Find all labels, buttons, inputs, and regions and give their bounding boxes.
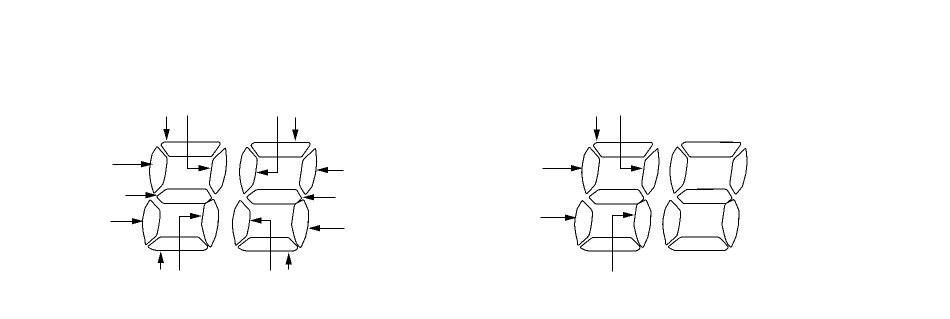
arrow to digit 1 segment e [111,218,144,224]
seven-segment digit 4 segment e (bottom left) [663,200,681,244]
seven-segment digit 2 segment a (top) [251,142,310,157]
arrow to digit 1 segment f [113,161,154,167]
seven-segment digit 4 segment g (middle) [677,189,731,204]
seven-segment digit 2 segment e (bottom left) [232,201,250,245]
arrow to digit 2 segment d [286,253,292,270]
seven-segment digit 2 segment c (bottom right) [292,200,309,247]
arrow to digit 2 segment b [316,167,343,173]
seven-segment digit 1 segment a (top) [161,142,220,157]
seven-segment digit 2 segment b (top right) [300,149,317,195]
seven-segment digit 3 segment e (bottom left) [575,201,593,245]
seven-segment digit 3 [575,142,659,250]
seven-segment digit 1 segment f (top left) [149,147,167,193]
seven-segment digit 1 segment c (bottom right) [202,200,219,247]
seven-segment digit 2 [232,142,316,250]
seven-segment digit 4 segment b (top right) [730,148,747,194]
arrow to digit 1 segment a [163,117,169,141]
arrow to digit 1 segment d [158,251,164,269]
seven-segment digit 1 segment d (bottom) [148,237,208,251]
leader arrow to digit 2 segment f [256,117,277,176]
seven-segment digit 2 segment d (bottom) [238,237,298,251]
seven-segment digit 1 segment e (bottom left) [142,200,160,244]
arrow to digit 2 segment g [302,194,335,200]
seven-segment digit 4 segment f (top left) [670,147,688,193]
arrow to digit 3 segment e [541,215,577,221]
seven-segment digit 1 [142,142,226,250]
leader arrow to digit 1 segment c [180,213,203,271]
arrow to digit 2 segment c [308,225,344,231]
seven-segment digit 4 segment a (top) [682,142,741,157]
leader arrow to digit 3 segment c [613,212,635,272]
seven-segment digit 4 segment c (bottom right) [722,200,739,247]
seven-segment digit 4 [663,142,747,250]
seven-segment digit 3 segment d (bottom) [580,237,640,251]
leader arrow to digit 2 segment e [250,217,271,270]
arrow to digit 3 segment f [543,165,583,171]
seven-segment digit 1 segment g (middle) [157,189,211,204]
seven-segment digit 1 segment b (top right) [210,148,227,194]
seven-segment digit 3 segment b (top right) [642,149,659,195]
seven-segment digit 3 segment a (top) [594,142,653,157]
seven-segment digit 3 segment f (top left) [582,147,600,193]
seven-segment digit 2 segment g (middle) [247,190,301,205]
arrow to digit 2 segment a [292,118,298,142]
seven-segment digit 4 segment d (bottom) [669,237,729,251]
arrow to digit 1 segment g [126,192,158,198]
arrow to digit 3 segment a [594,117,600,142]
seven-segment digit 3 segment g (middle) [589,190,643,205]
seven-segment digit 2 segment f (top left) [239,147,257,193]
seven-segment digit 3 segment c (bottom right) [634,200,651,247]
leader arrow to digit 3 segment b [621,116,644,172]
leader arrow to digit 1 segment b [188,116,211,172]
